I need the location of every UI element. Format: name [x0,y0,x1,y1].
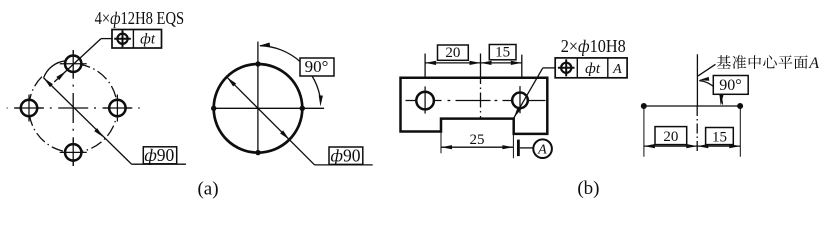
label: datum center plane A (Chinese) [717,55,819,72]
quadrant point dot top [255,61,260,66]
svg-text:90°: 90° [719,77,741,94]
svg-text:25: 25 [470,132,485,148]
quadrant point dot left [211,106,216,111]
boxed dimension phi90 (figure a right) [329,145,363,165]
plate outline (figure b) [401,78,548,134]
feature control frame: position phi-t datum A (figure b) [555,58,627,78]
vertical axis line [257,42,259,153]
vertical center line of hole pattern [72,50,74,166]
svg-text:15: 15 [712,129,727,145]
svg-text:фt: фt [585,61,601,77]
dimension text 25 [470,132,485,148]
svg-text:A: A [537,143,547,158]
svg-text:A: A [808,55,819,72]
boxed dimension 90 degrees (figure b right) [713,76,748,95]
circle phi90 (figure a right, thick) [214,64,303,153]
leader to datum center plane label [698,64,716,76]
equal spacing arc (EQS) [44,61,66,78]
dashed center line below [696,106,698,154]
svg-text:A: A [612,62,622,77]
datum feature symbol A (bar, leader, circle A) [517,139,552,158]
boxed dimension 15 (figure b right) [706,128,734,146]
label (a) [197,178,218,199]
svg-text:15: 15 [495,45,510,61]
svg-text:(b): (b) [577,178,599,199]
quadrant point dot bottom [255,150,260,155]
hole bottom of 4 x phi12H8 pattern [60,139,87,166]
horizontal center line through holes (figure b) [406,100,546,102]
label (b) [577,178,599,199]
dimension 25 below notch with extension lines [441,132,513,159]
svg-text:20: 20 [445,45,460,61]
phi90 diameter dimension diagonal with shelf (figure a right) [227,77,373,165]
90 degree angular dimension arc [259,43,323,107]
dimension lines 20 and 15 with extension lines (figure b right) [644,106,740,157]
phi90 pitch-circle diameter dimension line with leader shelf [44,78,186,164]
svg-text:(a): (a) [197,178,218,199]
leader from feature control frame to hole [54,39,112,82]
vertical datum center plane line in plate [480,54,482,119]
note 4 x phi12H8 EQS [95,8,184,28]
dimension lines 20 and 15 above plate with extension lines [425,54,522,78]
boxed dimension 20 (figure b right) [655,127,687,145]
boxed dimension phi90 (figure a left) [143,145,176,165]
pitch circle phi90 (dash-dot) [29,64,117,152]
horizontal center line of hole pattern [7,107,140,109]
feature control frame: position phi-t (figure a) [112,30,162,49]
svg-text:ф90: ф90 [331,145,361,165]
boxed dimension 20 (figure b plate) [438,45,469,61]
svg-text:4×ф12H8 EQS: 4×ф12H8 EQS [95,8,184,28]
leader from feature control frame to hole (figure b) [514,68,556,118]
hole right of 4 x phi12H8 pattern [104,95,131,122]
boxed dimension 90 degrees (figure a right) [300,57,334,76]
horizontal reference line with end dots [641,103,743,109]
svg-text:фt: фt [140,32,156,48]
quadrant point dot right [300,106,305,111]
vertical datum center plane line [696,54,698,106]
hole left of 2 x phi10H8 [416,86,434,113]
hole right of 2 x phi10H8 [512,86,528,113]
hole left of 4 x phi12H8 pattern [16,95,43,122]
hole top of 4 x phi12H8 pattern [60,50,87,77]
90 degree angular dimension arc (figure b right) [699,77,724,106]
svg-text:ф90: ф90 [144,145,174,165]
note 2 x phi10H8 [561,36,626,56]
horizontal axis line [214,107,324,109]
boxed dimension 15 (figure b plate) [489,45,516,61]
svg-text:20: 20 [663,129,678,145]
svg-text:90°: 90° [305,57,329,76]
svg-text:2×ф10H8: 2×ф10H8 [561,36,626,56]
